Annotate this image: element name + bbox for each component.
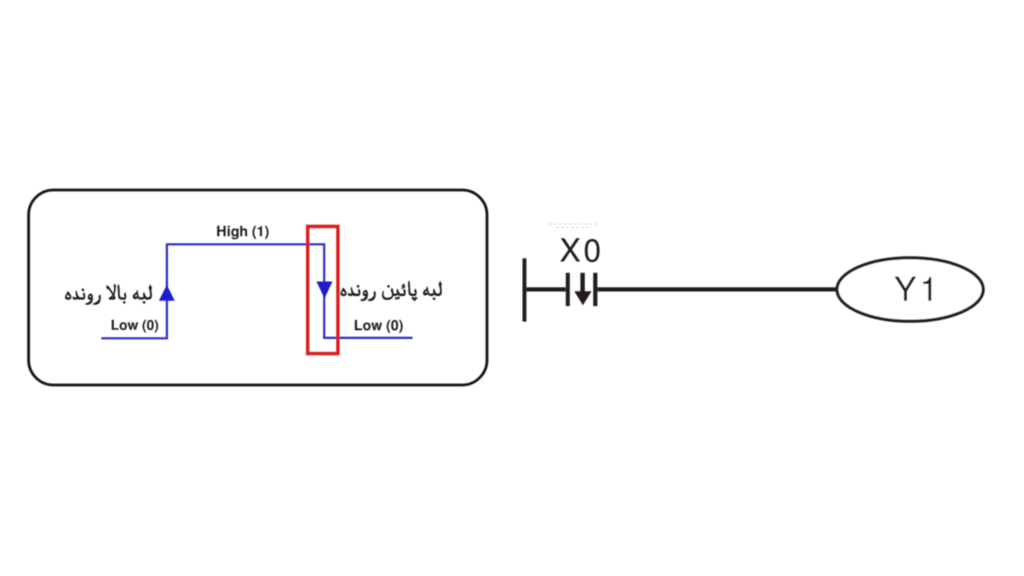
- label Low (0) left: [112, 320, 158, 333]
- contact X0 falling-edge arrow head: [574, 291, 591, 305]
- label Y1: [895, 277, 932, 301]
- rounded explainer box: [29, 190, 487, 385]
- node rising-edge arrow (blue up): [159, 285, 175, 301]
- wire contact X0 to coil Y1: [597, 287, 838, 291]
- contact X0 left bar: [566, 273, 570, 306]
- contact X0 falling-edge arrow shaft: [580, 273, 584, 293]
- wire signal waveform (blue): [101, 244, 412, 338]
- node falling-edge arrow (blue down): [317, 282, 333, 299]
- label Persian rising edge: lbh bala rwndh: [65, 284, 151, 304]
- coil Y1 ellipse: [837, 258, 983, 321]
- contact X0 right bar: [593, 273, 597, 306]
- label X0: [560, 238, 599, 262]
- wire rail to contact X0: [526, 287, 565, 291]
- ladder left power rail: [523, 258, 527, 321]
- label Low (0) right: [355, 320, 403, 333]
- label High (1): [217, 226, 268, 240]
- label Persian falling edge: lbh paean rwndh: [341, 281, 442, 301]
- falling-edge highlight red rectangle: [308, 226, 338, 353]
